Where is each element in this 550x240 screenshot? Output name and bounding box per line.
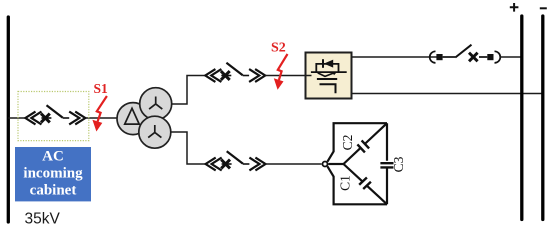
DC negative bus bar — [541, 16, 544, 220]
svg-text:C3: C3 — [391, 156, 406, 172]
wire: node to bottom rail — [327, 166, 387, 204]
wire: switch to converter — [265, 75, 306, 77]
wire — [221, 75, 231, 77]
AC incoming cabinet box — [15, 147, 91, 201]
breaker cross — [221, 71, 230, 80]
35kV AC bus bar — [7, 17, 10, 222]
drawout contact chevrons (right) — [249, 158, 265, 171]
drawout contact chevrons (left) — [25, 112, 41, 125]
freewheel diode loop — [316, 64, 338, 72]
wire: transformer lower winding to bottom branch — [170, 132, 206, 164]
wire: AC bus to transformer — [8, 117, 26, 119]
open switch blade — [47, 105, 63, 118]
diode D1 — [322, 59, 324, 68]
plug-in contact arc (left) — [430, 51, 436, 63]
S2 fault bolt — [274, 54, 288, 90]
svg-text:C1: C1 — [337, 175, 352, 191]
disconnector-breaker switch combo (top branch) — [205, 63, 265, 82]
wire: lower diagonal branch (C1) — [344, 164, 388, 204]
capacitor C2 — [357, 140, 369, 152]
converter valve U1 (IGBT module) — [306, 53, 352, 99]
IGBT Q1 — [318, 73, 335, 77]
open switch blade — [455, 45, 471, 58]
disconnector-breaker switch combo (AC incoming) — [25, 105, 85, 124]
wye winding symbol (upper) — [149, 97, 162, 110]
svg-text:S2: S2 — [271, 40, 286, 55]
wire — [443, 56, 456, 58]
wire: right riser (C3 branch) — [386, 123, 388, 204]
wire — [41, 117, 51, 119]
drawout contact chevrons (left) — [206, 158, 222, 171]
wire — [222, 163, 232, 165]
open switch blade — [226, 63, 242, 75]
wire — [63, 117, 69, 119]
- polarity label — [540, 7, 547, 9]
svg-text:35kV: 35kV — [25, 211, 61, 228]
DC breaker combo — [430, 45, 501, 63]
terminal block (left) — [436, 54, 442, 60]
open switch blade — [227, 151, 243, 164]
disconnector-breaker switch combo (bottom branch) — [206, 151, 266, 170]
drawout contact chevrons (left) — [205, 69, 221, 82]
svg-text:AC: AC — [42, 149, 64, 165]
wire — [243, 163, 249, 165]
wye winding symbol (lower) — [148, 125, 161, 138]
DC positive bus bar — [520, 16, 523, 220]
drawout contact chevrons (right) — [249, 69, 265, 82]
AC incoming cabinet dashed boundary — [18, 92, 89, 141]
drawout contact chevrons (right) — [69, 112, 85, 125]
plug-in contact arc (right) — [495, 51, 501, 63]
terminal block (right) — [487, 54, 493, 60]
svg-text:S1: S1 — [94, 81, 109, 96]
wire: converter to DC breaker — [352, 56, 439, 58]
svg-text:C2: C2 — [340, 135, 355, 151]
breaker cross — [221, 160, 230, 169]
filter node junction — [323, 162, 328, 167]
wire: converter to - bus — [352, 93, 543, 95]
S1 fault bolt — [92, 96, 107, 132]
wire: upper diagonal branch (C2) — [344, 123, 388, 164]
wire — [243, 75, 249, 77]
collector rail — [311, 71, 347, 73]
breaker cross — [469, 53, 478, 62]
input stub — [306, 75, 312, 77]
wire — [479, 56, 487, 58]
svg-text:cabinet: cabinet — [30, 183, 77, 199]
wire: switch to filter node — [265, 163, 321, 165]
wire: node to top rail — [327, 123, 387, 162]
transformer T1 (three-winding) — [117, 88, 172, 149]
wire: node to diagonal junction — [328, 163, 343, 165]
wire: transformer upper winding to top branch — [171, 76, 206, 105]
capacitor C3 — [380, 163, 393, 167]
svg-text:incoming: incoming — [23, 166, 83, 182]
wire: DC breaker to + bus — [500, 56, 522, 58]
capacitor C1 — [359, 178, 371, 190]
delta winding symbol — [125, 108, 140, 124]
+ polarity label — [510, 3, 519, 12]
capacitor bank frame — [327, 123, 387, 204]
breaker cross — [41, 114, 50, 123]
